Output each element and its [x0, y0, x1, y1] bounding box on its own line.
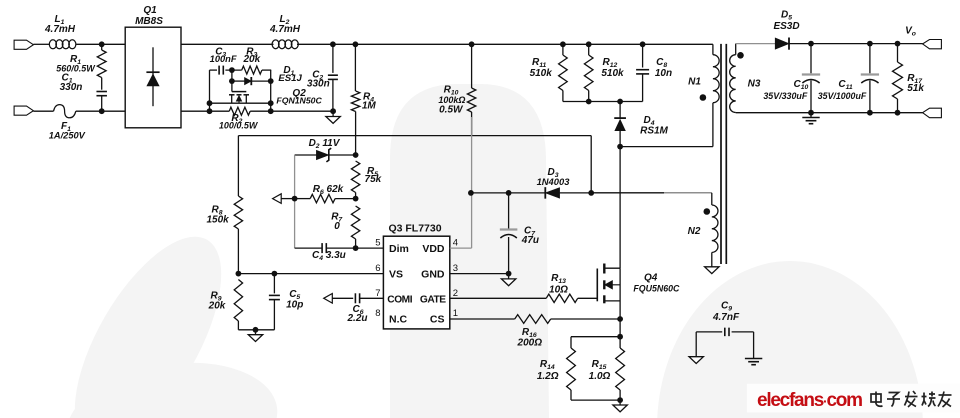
- svg-text:2: 2: [453, 288, 458, 299]
- resistor R5: [351, 161, 359, 193]
- svg-text:Dim: Dim: [389, 243, 409, 255]
- svg-text:ES3D: ES3D: [773, 21, 799, 32]
- wire R9 C5 bottom: [238, 329, 274, 331]
- wire VS row: [238, 273, 383, 275]
- svg-text:1.2Ω: 1.2Ω: [537, 371, 559, 382]
- svg-text:4.7nF: 4.7nF: [712, 312, 740, 323]
- svg-text:VS: VS: [389, 269, 403, 281]
- node A rectifier input: [99, 41, 105, 47]
- op-amp U1 FL7730 controller: [383, 236, 449, 329]
- ground under N2: [705, 267, 719, 274]
- svg-text:35V/330uF: 35V/330uF: [763, 91, 807, 101]
- svg-text:330n: 330n: [307, 78, 330, 89]
- svg-text:COMI: COMI: [387, 294, 412, 305]
- ground under C10: [810, 113, 812, 118]
- svg-text:2.2u: 2.2u: [346, 313, 367, 324]
- wire secondary top rail: [736, 43, 776, 45]
- svg-text:D2 11V: D2 11V: [309, 138, 341, 150]
- resistor R10: [469, 41, 475, 47]
- transistor Q4 MOSFET: [596, 269, 598, 302]
- ground under C9 right: [753, 332, 755, 359]
- svg-text:6: 6: [375, 263, 380, 274]
- resistor R13: [450, 297, 546, 299]
- wire VDD column gray: [471, 117, 473, 248]
- resistor R11: [560, 41, 566, 47]
- svg-text:35V/1000uF: 35V/1000uF: [818, 91, 867, 101]
- resistor R3: [242, 66, 262, 74]
- svg-text:CS: CS: [430, 314, 445, 326]
- wire top rail: [33, 43, 49, 45]
- svg-text:VDD: VDD: [422, 243, 445, 255]
- wire source node: [619, 319, 621, 337]
- resistor R15: [616, 348, 625, 390]
- resistor R17: [895, 41, 901, 47]
- capacitor C2: [330, 41, 336, 47]
- wire GND row: [450, 273, 509, 275]
- svg-text:20k: 20k: [242, 54, 260, 65]
- svg-text:4.7mH: 4.7mH: [44, 24, 76, 35]
- ground under C9 left: [695, 332, 697, 357]
- resistor R2: [229, 107, 250, 115]
- wire bottom rail: [33, 110, 53, 112]
- logo chinese characters: [871, 394, 881, 402]
- ground under C7: [508, 274, 510, 279]
- capacitor C1: [96, 91, 107, 93]
- dimmer arrow node: [273, 194, 282, 204]
- capacitor C7: [506, 190, 512, 196]
- svg-text:330n: 330n: [60, 82, 83, 93]
- svg-text:8: 8: [375, 308, 380, 319]
- svg-text:51k: 51k: [907, 83, 924, 94]
- svg-text:GND: GND: [421, 269, 445, 281]
- svg-text:FQN1N50C: FQN1N50C: [276, 95, 322, 105]
- input connector J2: [14, 106, 33, 115]
- capacitor C9: [696, 331, 722, 333]
- transformer secondary N3: [735, 44, 737, 55]
- svg-text:1A/250V: 1A/250V: [49, 130, 86, 140]
- svg-text:ES1J: ES1J: [278, 73, 302, 84]
- svg-text:FQU5N60C: FQU5N60C: [633, 284, 680, 294]
- capacitor C8: [640, 41, 646, 47]
- wire VDD startup line: [238, 135, 591, 137]
- svg-text:150k: 150k: [206, 215, 229, 226]
- svg-text:100nF: 100nF: [210, 54, 237, 64]
- svg-text:elecfans·com: elecfans·com: [757, 390, 862, 411]
- transistor Q2 MOSFET: [231, 81, 233, 92]
- svg-text:0.5W: 0.5W: [439, 105, 464, 116]
- wire N1 bottom: [620, 146, 713, 148]
- wire snubber left column: [209, 70, 211, 111]
- svg-text:510k: 510k: [530, 68, 553, 79]
- svg-text:3: 3: [453, 263, 458, 274]
- svg-text:N.C: N.C: [389, 314, 408, 326]
- svg-text:R6 62k: R6 62k: [313, 184, 344, 196]
- wire clamp bottom: [563, 101, 643, 103]
- logo background: [747, 384, 960, 413]
- zener diode D2: [353, 152, 359, 158]
- svg-text:1N4003: 1N4003: [537, 176, 571, 187]
- diode D5: [775, 38, 789, 49]
- resistor R9: [234, 280, 242, 322]
- svg-text:100/0.5W: 100/0.5W: [219, 121, 259, 131]
- transformer primary N1: [712, 44, 714, 54]
- wire secondary bottom rail: [736, 112, 923, 114]
- input connector J1: [14, 40, 33, 49]
- fuse F1: [54, 105, 76, 118]
- svg-text:RS1M: RS1M: [640, 125, 668, 136]
- ground under R9: [255, 330, 257, 335]
- resistor R16: [450, 318, 515, 320]
- resistor R14: [571, 336, 620, 338]
- resistor R7: [351, 206, 359, 239]
- resistor R8: [234, 196, 242, 229]
- wire VDD supply row: [471, 192, 545, 194]
- svg-text:C4 3.3u: C4 3.3u: [312, 250, 346, 262]
- svg-text:N3: N3: [748, 79, 761, 90]
- svg-text:75k: 75k: [365, 174, 382, 185]
- wire dimmer loop left column: [294, 155, 296, 248]
- svg-text:1: 1: [453, 308, 458, 319]
- svg-text:10n: 10n: [655, 68, 672, 79]
- diode D3: [545, 188, 559, 199]
- svg-text:100kΩ: 100kΩ: [438, 95, 465, 105]
- transformer core: [720, 44, 722, 264]
- output connector top: [923, 40, 942, 49]
- svg-text:1M: 1M: [362, 100, 377, 111]
- svg-text:N1: N1: [688, 76, 701, 87]
- capacitor C6: [354, 293, 356, 303]
- svg-text:10p: 10p: [286, 300, 303, 311]
- capacitor C5: [273, 274, 275, 294]
- svg-text:200Ω: 200Ω: [517, 337, 543, 348]
- diode D1: [231, 70, 233, 81]
- capacitor C11: [867, 41, 873, 47]
- svg-text:Q3 FL7730: Q3 FL7730: [388, 223, 441, 235]
- svg-text:Q1: Q1: [143, 5, 157, 16]
- capacitor C4: [353, 245, 359, 251]
- resistor R6: [295, 198, 311, 200]
- svg-text:5: 5: [375, 238, 380, 249]
- inductor L1: [49, 40, 56, 49]
- svg-text:GATE: GATE: [420, 294, 446, 305]
- dimmer arrow COMI: [324, 294, 333, 304]
- svg-text:10Ω: 10Ω: [549, 284, 568, 295]
- diode D4: [619, 102, 621, 119]
- resistor R12: [586, 41, 592, 47]
- node drain: [617, 144, 623, 150]
- inductor L2: [272, 40, 279, 49]
- svg-text:Q4: Q4: [644, 273, 658, 284]
- output connector bottom: [923, 108, 942, 118]
- svg-text:4.7mH: 4.7mH: [269, 24, 301, 35]
- svg-text:7: 7: [375, 288, 380, 299]
- svg-text:47u: 47u: [521, 235, 539, 246]
- resistor R4: [353, 41, 359, 47]
- transformer aux N2: [591, 192, 664, 194]
- ground under C2: [332, 111, 334, 116]
- bridge rectifier Q1: [125, 27, 181, 128]
- resistor R1: [97, 50, 106, 78]
- svg-text:0: 0: [334, 221, 340, 232]
- svg-text:N2: N2: [688, 226, 701, 237]
- capacitor C3: [210, 69, 218, 71]
- svg-text:MB8S: MB8S: [135, 16, 163, 27]
- svg-text:510k: 510k: [601, 68, 624, 79]
- svg-text:20k: 20k: [208, 301, 226, 312]
- svg-text:1.0Ω: 1.0Ω: [589, 371, 611, 382]
- wire snubber right column: [270, 70, 272, 111]
- ground under R15: [619, 400, 621, 405]
- svg-text:4: 4: [453, 238, 458, 249]
- capacitor C10: [808, 41, 814, 47]
